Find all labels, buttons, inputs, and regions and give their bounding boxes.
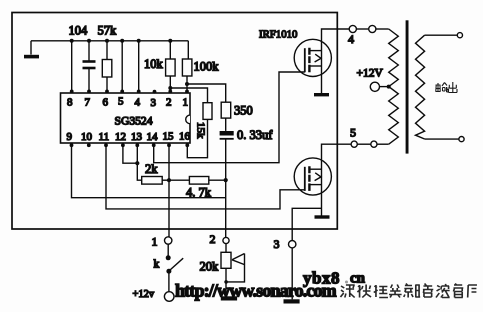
wire 100k to 350 feed: [187, 84, 226, 102]
node bus-pin4: [137, 39, 141, 43]
wire pin9: [72, 145, 226, 198]
resistor 350: [221, 102, 253, 118]
svg-text:15k: 15k: [195, 122, 207, 139]
node pin16: [185, 143, 189, 147]
label 输出 output: [436, 82, 458, 93]
terminal 1: [152, 235, 172, 249]
wire pin8 riser: [71, 41, 73, 91]
wire secondary bottom lead: [425, 138, 459, 140]
node pin7: [87, 90, 91, 94]
op-amp U1 SG3524: [61, 93, 191, 143]
wire pin13: [136, 145, 138, 163]
node pin5: [120, 90, 124, 94]
svg-text:100k: 100k: [194, 60, 220, 74]
capacitor 104: [69, 24, 96, 92]
svg-text:12: 12: [115, 131, 126, 143]
svg-text:0. 33uf: 0. 33uf: [237, 128, 273, 142]
wire terminal 3 to Q2 source: [292, 208, 321, 240]
transformer T1 primary: [389, 29, 399, 144]
ground terminal3: [284, 299, 300, 303]
terminal +12v: [133, 289, 175, 302]
wire cap column to terminal 2: [225, 140, 227, 238]
svg-text:cn: cn: [350, 271, 366, 287]
svg-text:4: 4: [348, 32, 354, 46]
svg-text:20k: 20k: [200, 259, 220, 273]
node pin2-15k: [168, 86, 172, 90]
node pin4: [137, 90, 141, 94]
capacitor C-0.33uf: [220, 118, 274, 142]
svg-text:6: 6: [103, 97, 109, 109]
svg-text:5: 5: [350, 126, 356, 140]
resistor 2k: [137, 162, 169, 184]
transformer T1 secondary: [416, 35, 425, 139]
ground pot: [221, 296, 237, 300]
svg-text:2k: 2k: [145, 162, 158, 176]
node pin1-350: [185, 82, 189, 86]
terminal output bottom: [459, 137, 464, 142]
terminal 3: [274, 237, 296, 251]
terminal 5: [350, 126, 377, 148]
resistor 10k: [144, 41, 175, 91]
ground Q2 source: [315, 215, 330, 218]
watermark chinese company: [340, 284, 477, 298]
svg-text:14: 14: [147, 131, 159, 143]
node bus-pin7: [87, 39, 91, 43]
svg-text:3: 3: [274, 237, 280, 251]
node bus-pin5: [120, 39, 124, 43]
svg-text:4: 4: [135, 97, 141, 109]
wire switch to +12v: [168, 271, 170, 292]
svg-text:10k: 10k: [144, 57, 164, 71]
wire top bus: [31, 40, 188, 42]
node pin14: [152, 143, 156, 147]
node pin9: [70, 143, 74, 147]
node bus-10k: [168, 39, 172, 43]
resistor 4.7k: [169, 177, 226, 200]
terminal 4: [348, 25, 376, 46]
terminal +12V tap: [357, 68, 389, 92]
node 4.7k-cap: [224, 178, 228, 182]
node pin3: [153, 90, 157, 94]
wire Q2 drain riser: [322, 144, 352, 216]
wire pin15 to terminal 1: [168, 145, 170, 237]
node center tap: [387, 85, 391, 89]
node pin11: [104, 143, 108, 147]
svg-text:8: 8: [67, 97, 73, 109]
svg-text:16: 16: [179, 131, 191, 143]
svg-text:2: 2: [166, 97, 172, 109]
svg-text:1: 1: [152, 235, 158, 249]
node pin2: [168, 90, 172, 94]
node pin1: [185, 90, 189, 94]
svg-text:SG3524: SG3524: [115, 115, 153, 128]
node pin8: [70, 90, 74, 94]
node bus-pin6: [105, 39, 109, 43]
svg-text:2: 2: [210, 232, 216, 246]
ground Q1 source: [314, 93, 329, 96]
transistor Q2 IRF1010: [294, 158, 331, 195]
ground GND1: [24, 41, 39, 59]
node 2k-pin15: [167, 178, 171, 182]
node pin13: [135, 143, 139, 147]
node bus-pin8: [70, 39, 74, 43]
wire pin5 riser: [121, 41, 123, 91]
node pin6: [105, 90, 109, 94]
svg-text:+12v: +12v: [133, 289, 155, 300]
svg-text:104: 104: [69, 24, 89, 38]
potentiometer 20k: [200, 244, 245, 297]
terminal 2: [210, 232, 230, 246]
wire 15k to pin16: [187, 119, 207, 157]
svg-text:ybx8: ybx8: [303, 269, 340, 288]
svg-text:15: 15: [163, 131, 175, 143]
wire 10k to 15k feed: [170, 88, 207, 103]
node pin15: [167, 143, 171, 147]
svg-text:k: k: [154, 259, 160, 271]
transformer core: [406, 20, 409, 153]
node pin12-pin13: [135, 161, 139, 165]
svg-text:1: 1: [183, 97, 189, 109]
wire pin11 to Q2 gate: [106, 145, 305, 209]
switch k: [154, 244, 184, 274]
svg-text:11: 11: [99, 131, 110, 143]
wire pin12: [123, 145, 137, 163]
svg-text:+12V: +12V: [357, 68, 384, 80]
svg-text:9: 9: [67, 131, 73, 143]
svg-text:IRF1010: IRF1010: [259, 28, 297, 40]
wire Q1 drain riser: [322, 29, 350, 93]
terminal output top: [457, 33, 462, 38]
transistor Q1 IRF1010: [259, 28, 331, 76]
wire terminal5 to transformer: [377, 143, 389, 145]
svg-text:13: 13: [131, 131, 143, 143]
svg-text:7: 7: [85, 97, 91, 109]
svg-text:57k: 57k: [98, 24, 118, 38]
svg-text:350: 350: [234, 104, 253, 118]
svg-text:5: 5: [118, 96, 124, 108]
enclosure box: [12, 13, 337, 230]
wire terminal4 to transformer: [376, 28, 389, 30]
wire pin14 to Q1 gate: [154, 72, 305, 163]
resistor 57k: [98, 24, 118, 92]
wire terminal3 to ground: [291, 248, 293, 299]
svg-text:10: 10: [81, 131, 93, 143]
node pin12: [121, 143, 125, 147]
node pin10: [87, 143, 91, 147]
wire pin4 riser: [138, 41, 140, 91]
wire secondary top lead: [425, 34, 458, 36]
resistor 100k: [182, 41, 219, 91]
svg-text:3: 3: [151, 97, 157, 109]
resistor 15k: [195, 103, 213, 139]
